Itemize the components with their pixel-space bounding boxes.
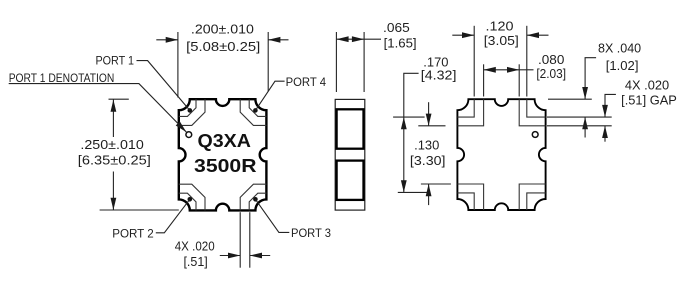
svg-text:4X .020: 4X .020: [625, 77, 669, 92]
dim .200 arrows: [156, 39, 178, 41]
leader PORT 1 DENOTATION underline: [9, 84, 187, 133]
bottom view pad bottom-left: [457, 184, 483, 210]
svg-text:.080: .080: [538, 52, 564, 67]
svg-text:.065: .065: [383, 20, 410, 35]
pad port1 corner top-left: [179, 99, 205, 125]
dim 4X .020 arrows: [220, 255, 240, 257]
svg-text:[.51] GAP: [.51] GAP: [621, 92, 677, 107]
dim 4X .020 extension lines: [239, 212, 241, 268]
dim gap leader bracket: [605, 94, 616, 117]
svg-text:.120: .120: [486, 18, 514, 33]
dim .065 extension lines: [335, 32, 337, 92]
arrowhead PORT 1 DENOTATION: [176, 121, 189, 134]
bottom view pad bottom-right: [519, 184, 545, 210]
dim .200 extension lines: [177, 32, 179, 98]
dim .170 leader bracket: [404, 73, 419, 192]
leader PORT 4: [255, 81, 284, 110]
pad port2 corner bottom-left: [179, 184, 205, 210]
package outline top view: [179, 99, 267, 210]
svg-text:PORT 3: PORT 3: [291, 226, 331, 240]
svg-text:.250±.010: .250±.010: [80, 137, 143, 152]
svg-text:[6.35±0.25]: [6.35±0.25]: [78, 152, 151, 167]
leader PORT 2: [156, 199, 190, 233]
svg-text:[1.02]: [1.02]: [606, 58, 639, 73]
svg-text:Q3XA: Q3XA: [198, 131, 251, 151]
side view outline: [335, 99, 365, 210]
svg-text:[3.05]: [3.05]: [484, 33, 519, 48]
pad port4 corner top-right: [240, 99, 266, 125]
leader dot port2: [188, 197, 193, 202]
side view metallization band upper: [337, 109, 364, 148]
svg-text:PORT 1 DENOTATION: PORT 1 DENOTATION: [9, 71, 115, 85]
svg-text:[5.08±0.25]: [5.08±0.25]: [186, 39, 260, 54]
svg-text:PORT 4: PORT 4: [286, 75, 327, 89]
port 1 denotation dot: [186, 132, 192, 138]
side view metallization band lower: [337, 161, 364, 200]
bottom view pad top-right: [519, 99, 545, 126]
dim gap extension lines: [547, 116, 612, 118]
dim .250 arrows: [112, 99, 114, 137]
dim .080 extension lines: [483, 64, 485, 96]
svg-text:PORT 1: PORT 1: [96, 54, 135, 68]
svg-text:[.51]: [.51]: [183, 254, 207, 269]
bottom view pad top-left: [457, 99, 483, 126]
dim .250 extension lines: [109, 98, 129, 100]
dim gap arrows: [602, 105, 608, 117]
svg-text:[1.65]: [1.65]: [384, 36, 417, 51]
leader dot port4: [253, 108, 258, 113]
dim .170 arrows: [401, 117, 407, 129]
svg-text:8X .040: 8X .040: [598, 41, 641, 56]
svg-text:[2.03]: [2.03]: [536, 66, 566, 81]
svg-text:.130: .130: [414, 138, 439, 153]
svg-text:PORT 2: PORT 2: [112, 227, 154, 241]
svg-text:[4.32]: [4.32]: [421, 67, 457, 82]
svg-text:3500R: 3500R: [194, 156, 257, 176]
dim .080 line and arrows: [484, 69, 520, 71]
dim .120 extension lines: [473, 26, 475, 97]
svg-text:4X .020: 4X .020: [175, 238, 215, 253]
leader PORT 1: [137, 61, 190, 111]
bottom view port 1 denotation dot: [532, 132, 538, 138]
svg-text:[3.30]: [3.30]: [410, 153, 446, 168]
dim .130 extension lines: [418, 125, 445, 127]
pad port3 corner bottom-right: [240, 184, 266, 210]
dim .065 line and arrows: [336, 38, 381, 40]
dim 8X .040 arrows: [582, 87, 588, 99]
leader dot port3: [253, 197, 258, 202]
dim .120 arrows: [452, 34, 474, 36]
svg-text:.200±.010: .200±.010: [191, 22, 254, 37]
leader PORT 3: [255, 199, 289, 232]
leader dot port1: [188, 108, 193, 113]
package outline bottom view: [457, 99, 545, 210]
dim 8X .040 extension line top edge: [548, 98, 592, 100]
dim 8X .040 leader bracket: [585, 58, 596, 99]
dim .170 extension lines: [393, 116, 425, 118]
dim .130 arrows: [428, 102, 430, 126]
